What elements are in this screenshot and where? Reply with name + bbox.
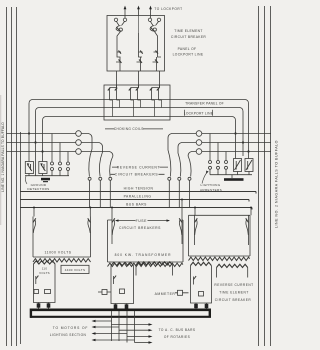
feeder to motors line 1 bbox=[95, 320, 112, 322]
wire detector box A stem bbox=[28, 174, 30, 176]
wire bus line 2 right bbox=[182, 142, 272, 144]
transfer switch 1 bbox=[110, 89, 113, 101]
transformer unit 2 right lead bbox=[181, 200, 183, 217]
disconnect switch under breaker 2 upper bbox=[154, 52, 162, 57]
choke coil left 3 bbox=[76, 149, 82, 155]
svg-text:LOCKPORT LINE: LOCKPORT LINE bbox=[173, 53, 204, 57]
transformer unit 3 primary winding zigzag bbox=[189, 257, 250, 260]
secondary box 2 winding zigzag bbox=[111, 262, 133, 265]
wire bar crossing stub left 1 bbox=[89, 192, 91, 208]
wire breaker 2 drop lower bbox=[153, 57, 157, 71]
wire box1 to transfer panel phase A bbox=[116, 71, 118, 88]
disconnect blob breaker 1 bbox=[119, 60, 122, 63]
feeder to motors line 4 bbox=[95, 339, 135, 341]
feeder to motors line 3 bbox=[95, 333, 127, 335]
junction dot bus1 right bbox=[234, 132, 236, 134]
fuse breaker blade unit2 right bbox=[181, 217, 183, 245]
svg-text:LINE NO. 2 NIAGARA FALLS TO BU: LINE NO. 2 NIAGARA FALLS TO BUFFALO bbox=[275, 140, 279, 228]
secondary open winding unit2 (4400V) zigzag bbox=[136, 262, 172, 265]
feeder to rotaries line 4 bbox=[135, 342, 150, 344]
wire box1 to transfer panel phase C bbox=[159, 71, 161, 88]
junction dot unit1 right tap bbox=[89, 207, 91, 209]
wire bus line 1 left bbox=[7, 133, 89, 135]
fuse element inside box 4 bbox=[199, 292, 204, 297]
wire box1 to transfer panel phase B bbox=[138, 71, 140, 88]
panel box transfer panel of Lockport line bbox=[104, 85, 170, 120]
breaker unit 2 contacts (circles) bbox=[148, 18, 151, 21]
wire breaker 2 drop bbox=[155, 32, 158, 53]
svg-text:FUSE: FUSE bbox=[136, 219, 147, 223]
svg-text:CIRCUIT BREAKER: CIRCUIT BREAKER bbox=[171, 35, 207, 39]
junction dot H3/bus3 left bbox=[41, 150, 43, 152]
transformer unit 3 right lead bbox=[250, 208, 252, 216]
wire arrester box 1 stem bbox=[235, 134, 237, 159]
feeder to rotaries line 3 bbox=[127, 336, 149, 338]
reverse current breaker left blade 1 bbox=[89, 134, 93, 177]
junction dot bus2 right bbox=[242, 141, 244, 143]
breaker unit 1 contacts (circles) bbox=[114, 18, 117, 21]
svg-text:4400 VOLTS: 4400 VOLTS bbox=[65, 268, 86, 272]
svg-text:PARALLELING: PARALLELING bbox=[124, 195, 152, 199]
junction dot unit2 left tap bbox=[111, 207, 113, 209]
wire left frame line 4 bbox=[20, 132, 22, 344]
junction dot unit3 right tap bbox=[250, 207, 252, 209]
wire 110V box legs bbox=[39, 303, 49, 309]
svg-text:11000 VOLTS: 11000 VOLTS bbox=[44, 251, 71, 255]
wire arrester mid stem bbox=[242, 143, 244, 157]
ground detector box A bbox=[25, 162, 33, 174]
wire detector feed A bbox=[28, 134, 30, 162]
transformer unit 1 right side with fuse blade bbox=[90, 217, 92, 258]
fuse breaker blade unit3 left bbox=[194, 215, 196, 245]
svg-text:VOLTS: VOLTS bbox=[39, 271, 50, 275]
wire detector box B stem bbox=[42, 174, 44, 176]
fuse blob box2 leg 1 bbox=[114, 304, 118, 308]
transformer unit 1 left side with fuse blade bbox=[32, 217, 34, 258]
wire left frame line 1 bbox=[6, 7, 8, 346]
wire H1 left drop to bus line 1 bbox=[28, 104, 30, 134]
transfer switch 2 bbox=[117, 89, 120, 101]
svg-text:HIGH TENSION: HIGH TENSION bbox=[124, 187, 154, 191]
disconnect blob center bbox=[139, 60, 142, 63]
wire to Lockport phase C with arrow bbox=[150, 8, 152, 18]
fuse blob leg 1 bbox=[37, 303, 41, 307]
switch blade inside box 2 bbox=[113, 276, 115, 284]
wire right frame line 1 bbox=[258, 6, 260, 346]
arrester resistance box 1 bbox=[234, 159, 242, 172]
svg-text:TIME ELEMENT: TIME ELEMENT bbox=[219, 290, 249, 294]
choke coil right 3 bbox=[196, 149, 202, 155]
secondary box 4 winding zigzag bbox=[191, 262, 212, 265]
choke coil left 1 bbox=[76, 131, 82, 137]
svg-text:OF ROTARIES: OF ROTARIES bbox=[164, 335, 190, 339]
low tension bus upper bar bbox=[30, 308, 211, 311]
svg-text:800 KW. TRANSFORMER: 800 KW. TRANSFORMER bbox=[115, 253, 172, 257]
wire center drop lower bbox=[137, 57, 141, 71]
wire left frame line 2 bbox=[11, 7, 13, 346]
label box 4400 VOLTS bbox=[61, 265, 89, 273]
wire feeder drop 1 bbox=[111, 311, 113, 341]
wire horizontal feeder H1 (y=99.5) bbox=[29, 100, 249, 104]
wire right frame line 2 bbox=[264, 6, 266, 346]
transfer switch 4 bbox=[138, 89, 141, 101]
bus bar 3 bbox=[20, 208, 252, 210]
ground bar arresters bbox=[224, 178, 244, 181]
breaker unit 2 latch hook bbox=[150, 21, 159, 31]
wire feeder drop 2 bbox=[118, 311, 120, 341]
arrester resistance box 2 bbox=[245, 159, 253, 172]
wire arrester common bbox=[210, 174, 252, 176]
svg-text:LIGHTNING: LIGHTNING bbox=[201, 183, 221, 187]
transfer switch 6 bbox=[159, 89, 162, 101]
transfer switch 5 bbox=[152, 89, 155, 101]
transfer switch 3 bbox=[131, 89, 134, 101]
fuse element right inside 110V box bbox=[45, 290, 51, 294]
low tension bus lower bar bbox=[30, 316, 211, 318]
wire open winding unit3 drops bbox=[217, 268, 248, 278]
svg-text:LINE NO. 1 NIAGARA FALLS TO BU: LINE NO. 1 NIAGARA FALLS TO BUFFALO bbox=[1, 122, 5, 192]
wire bar crossing stub left 2 bbox=[99, 192, 101, 208]
secondary box 2 outline bbox=[111, 266, 134, 304]
feeder to motors line 2 bbox=[95, 326, 119, 328]
wire bar crossing stub right 2 bbox=[178, 192, 180, 208]
fuse element inside box 2 bbox=[120, 289, 125, 294]
reverse current breaker left blade 3 bbox=[110, 152, 113, 177]
lightning arrester column 2 bbox=[217, 143, 219, 161]
wire transfer switch bottom stubs bbox=[113, 100, 162, 117]
junction dot unit2 right tap bbox=[181, 199, 183, 201]
svg-text:TO A. C. BUS BARS: TO A. C. BUS BARS bbox=[159, 328, 196, 332]
transformer unit 2 left lead bbox=[111, 208, 113, 217]
wire left frame line 3 bbox=[16, 7, 18, 346]
secondary open winding unit3 zigzag bbox=[217, 264, 248, 267]
breaker unit 1 latch hook bbox=[116, 21, 125, 31]
wire horizontal feeder H2 (y=107.5) bbox=[36, 108, 244, 112]
wire horizontal feeder H3 (y=116) bbox=[43, 117, 236, 121]
bus bar 1 high tension bbox=[20, 192, 256, 194]
transformer unit 3 bottom bbox=[189, 255, 251, 257]
wire arrester box 2 stem bbox=[248, 152, 250, 159]
wire transfer panel feed ties bbox=[110, 85, 160, 88]
transformer unit 3 top bbox=[189, 214, 251, 216]
spark gap column left 3 bbox=[67, 152, 69, 163]
wire right frame line 3 bbox=[270, 6, 272, 346]
wire bar crossing stub left 3 bbox=[109, 192, 111, 208]
svg-text:TRANSFER PANEL OF: TRANSFER PANEL OF bbox=[185, 102, 224, 106]
wire H2 right drop bbox=[242, 112, 244, 143]
svg-text:AMMETER: AMMETER bbox=[155, 292, 176, 296]
wire bus line 2 left bbox=[7, 142, 100, 144]
fuse breaker blade unit3 right bbox=[248, 215, 250, 245]
wire to Lockport phase A with arrow bbox=[124, 8, 126, 18]
svg-text:LIGHTING SECTION: LIGHTING SECTION bbox=[50, 333, 87, 337]
panel box time element circuit breaker panel bbox=[107, 16, 165, 72]
spark gap column left 1 bbox=[51, 134, 53, 163]
switch blade inside 110V box bbox=[35, 276, 37, 284]
wire arrester box bottoms bbox=[238, 172, 250, 175]
fuse blob box2 leg 2 bbox=[125, 304, 129, 308]
svg-text:TO MOTORS OF: TO MOTORS OF bbox=[53, 326, 89, 330]
fuse blob leg 2 bbox=[47, 303, 51, 307]
transformer unit 1 left lead bbox=[33, 208, 35, 217]
choke coil right 1 bbox=[196, 131, 202, 137]
reverse current breaker left blade 2 bbox=[99, 143, 103, 177]
low tension bus right end join bbox=[209, 309, 211, 318]
transformer unit 2 right side bbox=[182, 220, 183, 262]
wire feeder drop 4 bbox=[134, 311, 136, 343]
disconnect blob breaker 2 bbox=[155, 60, 158, 63]
transformer unit 1 right lead bbox=[89, 208, 91, 217]
gutter shading left edge bbox=[0, 95, 1, 225]
transformer unit 3 left side bbox=[188, 215, 190, 256]
lightning arrester column 3 bbox=[225, 152, 227, 161]
junction dot unit3 left tap bbox=[194, 207, 196, 209]
transformer unit 1 primary winding zigzag bbox=[33, 259, 91, 262]
wire box 4 legs bbox=[196, 303, 207, 310]
transformer unit 2 bottom bbox=[108, 261, 184, 263]
transformer unit 3 left lead bbox=[194, 208, 196, 216]
wire feeder drop 3 bbox=[126, 311, 128, 343]
wire to Lockport phase B with arrow bbox=[138, 8, 140, 16]
secondary box 110V outline bbox=[34, 264, 56, 303]
wire breaker 1 drop bbox=[117, 32, 121, 53]
secondary box 4 outline bbox=[191, 266, 212, 304]
ground bar detectors bbox=[41, 178, 50, 181]
junction dot H2/bus2 left bbox=[34, 141, 36, 143]
wire bus line 3 right bbox=[192, 151, 272, 153]
secondary box 110V winding zigzag bbox=[34, 261, 56, 264]
wire bus line 1 right bbox=[172, 133, 272, 135]
reverse current breaker right blade 3 bbox=[188, 152, 191, 177]
svg-text:REVERSE CURRENT: REVERSE CURRENT bbox=[214, 283, 253, 287]
wire bar crossing stub right 3 bbox=[189, 192, 191, 208]
ammeter plug left of box2 bbox=[98, 291, 111, 293]
wire arrester ground stem bbox=[231, 175, 233, 178]
transformer unit 2 left side bbox=[108, 220, 113, 262]
svg-text:REVERSE CURRENT: REVERSE CURRENT bbox=[117, 165, 160, 169]
choke coil left 2 bbox=[76, 140, 82, 146]
junction dot bus3 right bbox=[247, 150, 249, 152]
svg-text:CIRCUIT BREAKERS: CIRCUIT BREAKERS bbox=[115, 173, 159, 177]
spark gap column left 2 bbox=[59, 143, 61, 163]
wire center phase drop bbox=[138, 33, 140, 52]
wire ground detector common bbox=[25, 175, 69, 177]
svg-text:TO LOCKPORT: TO LOCKPORT bbox=[154, 7, 182, 11]
pointer curve ground detectors bbox=[25, 176, 27, 184]
choke coil right 2 bbox=[196, 140, 202, 146]
svg-text:CIRCUIT BREAKER: CIRCUIT BREAKER bbox=[215, 298, 252, 302]
svg-text:CIRCUIT BREAKERS: CIRCUIT BREAKERS bbox=[119, 226, 161, 230]
wire box 2 legs bbox=[116, 304, 127, 310]
svg-text:DETECTORS: DETECTORS bbox=[27, 187, 49, 191]
fuse breaker blade unit2 left bbox=[111, 217, 113, 245]
ammeter plug right bbox=[175, 292, 189, 294]
wire detector feed mid bbox=[35, 143, 37, 176]
svg-text:BUS BARS: BUS BARS bbox=[126, 203, 147, 207]
switch blade inside box 4 bbox=[193, 277, 195, 285]
wire H2 left drop bbox=[35, 112, 37, 143]
lightning arrester column 1 bbox=[209, 134, 211, 161]
wire detector feed B bbox=[42, 152, 44, 162]
fuse blob box4 leg 2 bbox=[205, 304, 209, 308]
junction dot unit1 left tap bbox=[33, 207, 35, 209]
reverse current breaker right blade 2 bbox=[178, 143, 182, 177]
feeder to rotaries line 1 bbox=[112, 324, 150, 326]
wire open winding unit2 drops bbox=[136, 265, 172, 276]
svg-text:LOCKPORT LINE: LOCKPORT LINE bbox=[184, 111, 214, 115]
feeder to rotaries line 2 bbox=[119, 329, 149, 331]
wire bar crossing stub right 1 bbox=[168, 192, 170, 208]
ground detector box B bbox=[39, 162, 47, 174]
svg-text:PANEL OF: PANEL OF bbox=[178, 47, 197, 51]
disconnect switch center upper bbox=[139, 52, 143, 57]
low tension bus left end join bbox=[30, 309, 32, 318]
wire breaker 1 drop lower bbox=[116, 57, 120, 71]
fuse blob box4 leg 1 bbox=[194, 304, 198, 308]
fuse element left inside 110V box bbox=[34, 290, 39, 294]
disconnect switch under breaker 1 upper bbox=[117, 52, 121, 57]
svg-text:TIME ELEMENT: TIME ELEMENT bbox=[174, 29, 203, 33]
transformer unit 3 right side bbox=[249, 215, 251, 256]
junction dot H1/bus1 left bbox=[28, 132, 30, 134]
reverse current breaker right blade 1 bbox=[168, 134, 172, 177]
wire bus line 3 left bbox=[7, 151, 110, 153]
wire H1 right drop to bus line 1 bbox=[248, 104, 250, 152]
wire H3 right drop bbox=[235, 121, 237, 134]
transformer unit 2 primary winding zigzag bbox=[108, 263, 183, 266]
wire H3 left drop bbox=[42, 121, 44, 152]
svg-text:CHOKING COILS: CHOKING COILS bbox=[114, 127, 144, 131]
pointer curve lightning arresters bbox=[202, 172, 208, 184]
transformer unit 1 bottom bbox=[33, 256, 91, 258]
bus bar 2 bbox=[20, 200, 249, 202]
